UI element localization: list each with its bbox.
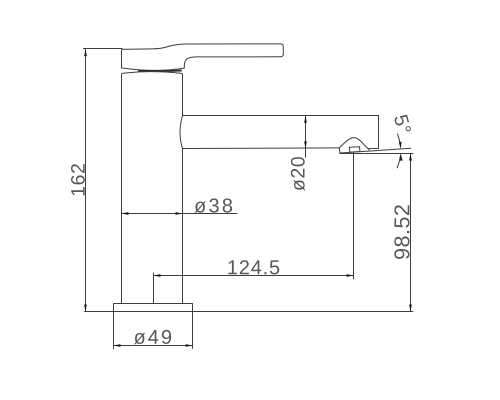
horizontal reference line	[340, 153, 413, 155]
arrow angle lower	[399, 154, 402, 161]
label o49	[134, 330, 171, 344]
dim 162 top extension line	[83, 48, 122, 50]
label o20	[291, 157, 305, 191]
aerator dome left drop	[338, 148, 341, 153]
spout top edge	[183, 115, 379, 117]
label o38	[195, 198, 233, 212]
dim 124.5 dimension line	[154, 275, 354, 277]
arrow o38 right	[176, 212, 183, 215]
label 98.52	[394, 205, 409, 259]
dim 98.52 dimension line	[410, 154, 412, 311]
faucet body outline with top crown and spout joint bulge	[122, 72, 183, 304]
arrow o38 left	[122, 212, 129, 215]
arrow o49 left	[114, 344, 121, 347]
arrow o49 right	[186, 344, 193, 347]
spout tip bottom segment	[369, 148, 379, 150]
arrow 98.52 bottom	[409, 305, 412, 312]
handle base bottom seam arc	[122, 68, 185, 71]
base flange with extension lines	[114, 304, 193, 349]
spout right end edge	[378, 116, 380, 149]
aerator outlet rectangle	[349, 147, 360, 152]
angle dim upper leader arc	[398, 134, 401, 147]
label 5 degrees	[394, 114, 412, 134]
arrow o20 top	[304, 116, 307, 123]
dim 124.5 center extension line	[153, 273, 155, 304]
dim o49 dimension line	[114, 345, 193, 347]
arrow 124.5 left	[154, 274, 161, 277]
dim o20 dimension line	[305, 116, 307, 157]
aerator dome	[339, 138, 369, 150]
dim 124.5 right extension line	[353, 152, 355, 279]
dim o38 dimension line	[122, 213, 238, 215]
angle dim lower leader arc	[397, 155, 400, 168]
dim 162 dimension line	[85, 49, 87, 311]
arrow 124.5 right	[347, 274, 354, 277]
seam dark band	[139, 70, 181, 72]
arrow 162 top	[84, 49, 87, 56]
label 162	[71, 164, 85, 195]
label 124.5	[228, 260, 279, 274]
spout bottom edge	[183, 147, 340, 150]
counter mounting line	[85, 311, 414, 313]
arrow 162 bottom	[84, 305, 87, 312]
5 degree tilted face line	[340, 148, 411, 153]
arrow 98.52 top	[409, 154, 412, 161]
arrow angle upper	[399, 142, 402, 149]
faucet handle lever outline	[122, 44, 284, 68]
arrow o20 bottom	[304, 141, 307, 148]
